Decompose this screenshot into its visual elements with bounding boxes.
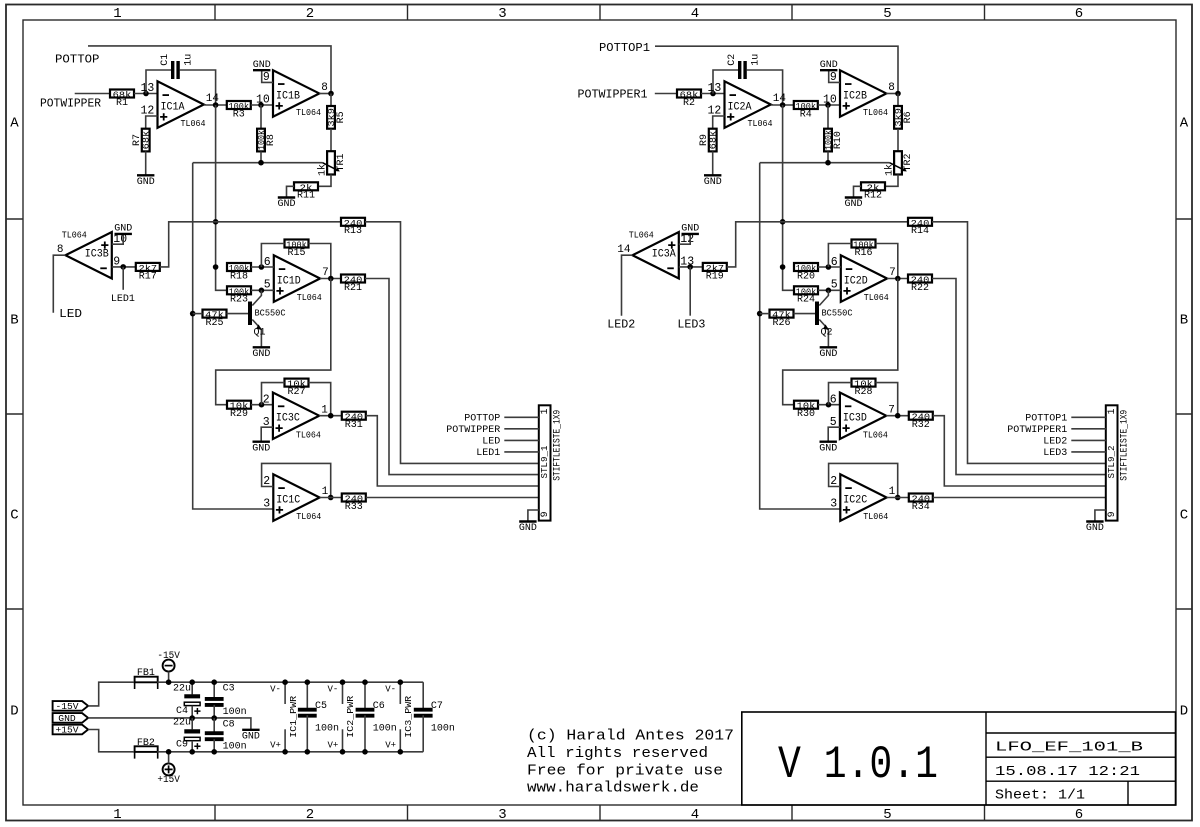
svg-text:2: 2 bbox=[306, 6, 314, 22]
svg-text:1: 1 bbox=[322, 486, 329, 498]
svg-text:3: 3 bbox=[498, 6, 506, 22]
svg-text:R1: R1 bbox=[116, 98, 128, 109]
ground at IC3A plus pin bbox=[681, 224, 699, 235]
wire R24 to IC2D pin 5 bbox=[818, 289, 841, 291]
svg-text:14: 14 bbox=[617, 244, 631, 256]
svg-text:7: 7 bbox=[889, 267, 896, 279]
svg-text:1: 1 bbox=[113, 6, 121, 22]
capacitor C9 22u bbox=[184, 731, 200, 749]
svg-text:1u: 1u bbox=[750, 54, 761, 66]
svg-text:TL064: TL064 bbox=[181, 118, 206, 129]
resistor R21 240 bbox=[341, 275, 365, 294]
wire R25 to Q1 base bbox=[227, 313, 249, 315]
wire C6 top bbox=[364, 682, 366, 710]
wire connector pin 9 to ground bbox=[1095, 510, 1106, 522]
svg-text:-15V: -15V bbox=[157, 650, 180, 662]
svg-text:10: 10 bbox=[823, 94, 837, 107]
svg-text:6: 6 bbox=[1075, 6, 1083, 22]
resistor R5 3k9 bbox=[326, 106, 347, 129]
wire R13 to connector pin 5 bbox=[365, 222, 539, 464]
wire R25 to wiper net bbox=[193, 313, 203, 315]
wire C9 top bbox=[191, 718, 193, 729]
wire IC1B pin 9 to ground bbox=[262, 70, 273, 82]
node IC1B output junction bbox=[328, 91, 334, 97]
svg-text:IC1B: IC1B bbox=[276, 90, 300, 102]
svg-text:R12: R12 bbox=[864, 191, 882, 202]
svg-text:LED1: LED1 bbox=[111, 294, 135, 305]
svg-text:V 1.0.1: V 1.0.1 bbox=[778, 739, 938, 791]
trimmer TR1 1k bbox=[316, 151, 347, 176]
node IC2C output junction bbox=[895, 495, 901, 501]
svg-text:POTTOP1: POTTOP1 bbox=[1025, 414, 1067, 425]
wire R2 to IC2A pin 13 bbox=[701, 93, 725, 95]
ground at IC2B pin 9 bbox=[820, 60, 838, 71]
node IC1D output junction bbox=[328, 276, 334, 282]
svg-text:TL064: TL064 bbox=[62, 230, 87, 241]
wire R23 to IC1D pin 5 bbox=[251, 289, 274, 291]
svg-text:R13: R13 bbox=[344, 226, 362, 237]
svg-text:22u: 22u bbox=[173, 683, 191, 694]
power symbol IC2_PWR V+ bbox=[342, 729, 344, 752]
svg-text:R5: R5 bbox=[336, 111, 347, 123]
svg-text:8: 8 bbox=[321, 82, 328, 94]
svg-text:STL9_2: STL9_2 bbox=[1106, 445, 1117, 478]
wire GND flag rail bbox=[88, 718, 251, 730]
wire R18 to IC1D pin 6 bbox=[251, 266, 274, 268]
wire R10 top bbox=[827, 105, 829, 129]
wire wiper net vertical down bbox=[193, 163, 274, 509]
op-amp IC2D bbox=[831, 255, 896, 303]
svg-text:FB1: FB1 bbox=[137, 668, 155, 679]
wire R27 right bbox=[309, 383, 331, 416]
wire IC3D output bbox=[886, 415, 909, 417]
wire R17 up to triangle net bbox=[160, 222, 341, 267]
wire IC2A pin 12 to R9 bbox=[713, 116, 725, 129]
wire IC2D output down to R30 bbox=[783, 279, 898, 405]
wire IC1D output down to R29 bbox=[216, 279, 331, 405]
wire IC2D output bbox=[887, 278, 908, 280]
node wiper net / R26 junction bbox=[757, 311, 763, 317]
wire IC3D plus pin to ground bbox=[828, 427, 840, 442]
wire IC3A minus pin to R19 bbox=[679, 266, 703, 268]
power symbol IC2_PWR V- bbox=[342, 682, 344, 704]
svg-text:4: 4 bbox=[691, 807, 699, 823]
wire R8 bottom bbox=[260, 151, 262, 162]
ground at R12 bbox=[844, 198, 862, 211]
wire IC1B pin 8 output bbox=[319, 93, 331, 95]
ground at R7 bbox=[137, 175, 155, 188]
wire IC1C feedback loop bbox=[262, 463, 331, 497]
svg-text:R4: R4 bbox=[800, 109, 812, 120]
wire R12 to ground bbox=[854, 186, 862, 197]
resistor R29 10k bbox=[227, 401, 251, 420]
wire R7 to ground bbox=[145, 151, 147, 175]
svg-text:IC1C: IC1C bbox=[276, 494, 300, 506]
node C4 gnd rail junction bbox=[189, 715, 195, 721]
wire C1 feedback left bbox=[146, 70, 171, 94]
wire connector pin 4 stub bbox=[504, 451, 539, 453]
svg-text:GND: GND bbox=[844, 199, 862, 210]
wire trimmer wiper net bbox=[760, 162, 890, 164]
op-amp IC1C bbox=[263, 474, 328, 522]
svg-text:BC550C: BC550C bbox=[822, 308, 853, 319]
resistor R23 100k bbox=[227, 286, 251, 305]
svg-text:TL064: TL064 bbox=[297, 292, 322, 303]
wire connector pin 9 to ground bbox=[528, 510, 539, 522]
svg-text:GND: GND bbox=[252, 443, 270, 454]
svg-text:FB2: FB2 bbox=[137, 738, 155, 749]
resistor R28 10k bbox=[852, 379, 876, 398]
wire R16 right bbox=[876, 244, 898, 279]
resistor R26 47k bbox=[770, 310, 794, 329]
resistor R22 240 bbox=[908, 275, 932, 294]
wire C3 bottom bbox=[213, 705, 215, 718]
svg-text:C9: C9 bbox=[176, 740, 188, 751]
svg-text:R25: R25 bbox=[205, 318, 223, 329]
node IC1_PWR top rail junction bbox=[282, 679, 288, 685]
svg-text:IC1A: IC1A bbox=[161, 101, 185, 113]
wire C4 top bbox=[191, 682, 193, 694]
wire net POTTOP bbox=[88, 46, 331, 94]
wire R3 to IC1B pin 10 bbox=[251, 104, 273, 106]
svg-text:R29: R29 bbox=[230, 409, 248, 420]
svg-text:R8: R8 bbox=[266, 134, 277, 146]
wire -15V connector to rail bbox=[168, 672, 170, 683]
svg-text:All rights reserved: All rights reserved bbox=[527, 746, 708, 762]
wire C7 bottom bbox=[422, 715, 424, 752]
svg-text:GND: GND bbox=[820, 60, 838, 71]
svg-text:POTWIPPER: POTWIPPER bbox=[40, 96, 102, 110]
wire C5 top bbox=[306, 682, 308, 710]
resistor R19 2k7 bbox=[703, 263, 727, 282]
svg-text:R31: R31 bbox=[345, 420, 363, 431]
svg-text:6: 6 bbox=[830, 393, 837, 406]
svg-text:C2: C2 bbox=[727, 54, 738, 66]
svg-text:IC1_PWR: IC1_PWR bbox=[289, 695, 299, 738]
resistor R13 240 bbox=[341, 218, 365, 237]
svg-text:-15V: -15V bbox=[56, 701, 79, 712]
wire IC3B minus pin to R17 bbox=[112, 266, 136, 268]
node -15V rail junction bbox=[166, 679, 172, 685]
node IC2A output junction bbox=[780, 102, 786, 108]
wire R30 to IC3D input bbox=[818, 404, 840, 406]
resistor R2 68k bbox=[677, 90, 701, 109]
resistor R9 68k bbox=[699, 129, 719, 152]
node IC3B minus pin junction bbox=[120, 264, 126, 270]
wire R10 bottom bbox=[827, 151, 829, 162]
svg-text:Q2: Q2 bbox=[821, 328, 833, 339]
node IC3A minus pin junction bbox=[687, 264, 693, 270]
node R20 / R16 junction bbox=[826, 264, 832, 270]
resistor R16 100k bbox=[852, 240, 876, 259]
svg-text:BC550C: BC550C bbox=[255, 308, 286, 319]
svg-text:R2: R2 bbox=[683, 98, 695, 109]
op-amp IC3B bbox=[57, 230, 127, 279]
svg-text:(c) Harald Antes 2017: (c) Harald Antes 2017 bbox=[527, 729, 734, 745]
wire C2 feedback left bbox=[713, 70, 738, 94]
svg-text:5: 5 bbox=[883, 807, 891, 823]
wire R26 to wiper net bbox=[760, 313, 770, 315]
ground at IC1B pin 9 bbox=[253, 60, 271, 71]
ground at IC3D bbox=[819, 442, 837, 455]
svg-text:GND: GND bbox=[704, 177, 722, 188]
resistor R25 47k bbox=[203, 310, 227, 329]
wire C3 top bbox=[213, 682, 215, 699]
svg-text:R17: R17 bbox=[139, 271, 157, 282]
svg-text:STIFTLEISTE_1X9: STIFTLEISTE_1X9 bbox=[1120, 410, 1131, 481]
svg-text:V-: V- bbox=[385, 685, 396, 695]
svg-text:13: 13 bbox=[140, 82, 154, 95]
svg-text:2: 2 bbox=[263, 393, 270, 406]
svg-text:3: 3 bbox=[830, 498, 837, 511]
svg-text:R11: R11 bbox=[297, 191, 315, 202]
svg-text:1u: 1u bbox=[183, 54, 194, 66]
svg-text:TL064: TL064 bbox=[863, 429, 888, 440]
resistor R8 100k bbox=[256, 129, 277, 152]
resistor R12 2k bbox=[861, 182, 885, 201]
wire connector pin 3 stub bbox=[504, 439, 539, 441]
wire to LED1 label bbox=[122, 267, 124, 290]
node C6 bottom rail junction bbox=[362, 749, 368, 755]
wire R5 to TR1 bbox=[330, 129, 332, 152]
capacitor C1 1u bbox=[173, 61, 178, 79]
wire IC3C plus pin to ground bbox=[261, 427, 273, 442]
svg-text:R28: R28 bbox=[854, 387, 872, 398]
svg-text:IC2_PWR: IC2_PWR bbox=[346, 695, 356, 738]
svg-text:TL064: TL064 bbox=[296, 107, 321, 118]
svg-text:STL9_1: STL9_1 bbox=[539, 445, 550, 478]
node IC2D output junction bbox=[895, 276, 901, 282]
wire R34 to connector pin 8 bbox=[933, 497, 1106, 499]
wire C1 feedback right bbox=[179, 70, 215, 105]
svg-text:TL064: TL064 bbox=[629, 230, 654, 241]
svg-text:TR1: TR1 bbox=[336, 153, 347, 171]
svg-text:GND: GND bbox=[681, 224, 699, 235]
svg-text:R14: R14 bbox=[911, 226, 929, 237]
svg-text:LED3: LED3 bbox=[677, 318, 705, 332]
svg-text:LED: LED bbox=[59, 307, 82, 321]
node R4 / R10 junction bbox=[825, 102, 831, 108]
power symbol IC3_PWR V+ bbox=[399, 729, 401, 752]
wire C9 bottom bbox=[191, 741, 193, 752]
svg-text:100n: 100n bbox=[373, 724, 397, 735]
capacitor C4 22u bbox=[184, 696, 200, 714]
power symbol IC1_PWR V+ bbox=[284, 729, 286, 752]
svg-text:TL064: TL064 bbox=[863, 107, 888, 118]
wire R14 to connector pin 5 bbox=[932, 222, 1106, 464]
wire R19 up to triangle net bbox=[727, 222, 908, 267]
node IC2_PWR top rail junction bbox=[340, 679, 346, 685]
svg-text:3: 3 bbox=[263, 498, 270, 511]
svg-text:V+: V+ bbox=[385, 740, 396, 750]
wire IC1C output bbox=[320, 497, 342, 499]
wire R28 right bbox=[876, 383, 898, 416]
svg-text:7: 7 bbox=[322, 267, 329, 279]
op-amp IC2C bbox=[830, 474, 895, 522]
wire R9 to ground bbox=[712, 151, 714, 175]
wire R31 to connector pin 7 bbox=[366, 416, 539, 486]
svg-text:100n: 100n bbox=[223, 707, 247, 718]
node vertical / triangle net junction bbox=[780, 219, 786, 225]
svg-text:V+: V+ bbox=[327, 740, 338, 750]
wire R15 right bbox=[309, 244, 331, 279]
svg-text:V-: V- bbox=[270, 685, 281, 695]
title block box bbox=[742, 712, 1176, 805]
svg-text:GND: GND bbox=[277, 199, 295, 210]
ground at GND rail end bbox=[242, 730, 260, 743]
svg-text:1k: 1k bbox=[883, 164, 895, 176]
svg-text:TL064: TL064 bbox=[748, 118, 773, 129]
wire trimmer wiper net bbox=[193, 162, 323, 164]
svg-text:9: 9 bbox=[540, 511, 551, 517]
wire IC3B plus pin to ground bbox=[112, 234, 123, 244]
wire R11 to ground bbox=[287, 186, 295, 197]
svg-text:LED1: LED1 bbox=[476, 448, 500, 459]
wire C4 bottom bbox=[191, 706, 193, 718]
power connector -15V bbox=[157, 650, 180, 671]
svg-text:D: D bbox=[10, 704, 18, 720]
ferrite bead FB1 bbox=[135, 668, 158, 689]
wire IC3B output to LED label bbox=[53, 255, 65, 313]
node R24 / Q2 junction bbox=[826, 288, 832, 294]
resistor R6 3k9 bbox=[893, 106, 914, 129]
node C3 gnd rail junction bbox=[211, 715, 217, 721]
wire R22 to connector pin 6 bbox=[932, 279, 1106, 475]
svg-text:LFO_EF_101_B: LFO_EF_101_B bbox=[995, 740, 1143, 756]
node IC3_PWR top rail junction bbox=[398, 679, 404, 685]
wire +15V bottom rail bbox=[157, 751, 423, 753]
svg-text:8: 8 bbox=[888, 82, 895, 94]
wire IC2C output bbox=[887, 497, 909, 499]
svg-text:GND: GND bbox=[252, 349, 270, 360]
wire TR2 bottom to R12 bbox=[885, 175, 898, 187]
node C3 top rail junction bbox=[211, 679, 217, 685]
svg-text:1: 1 bbox=[1107, 408, 1118, 414]
svg-text:7: 7 bbox=[888, 404, 895, 416]
wire IC1D output bbox=[320, 278, 341, 280]
svg-text:IC2D: IC2D bbox=[844, 275, 868, 287]
wire connector pin 1 stub bbox=[1071, 416, 1106, 418]
wire IC2B pin 8 output bbox=[886, 93, 898, 95]
node C5 top rail junction bbox=[305, 679, 311, 685]
wire connector pin 4 stub bbox=[1071, 451, 1106, 453]
ground at connector pin 9 bbox=[1086, 522, 1104, 535]
resistor R34 240 bbox=[909, 494, 933, 513]
svg-text:R27: R27 bbox=[287, 387, 305, 398]
svg-text:IC3_PWR: IC3_PWR bbox=[404, 695, 414, 738]
svg-text:10: 10 bbox=[256, 94, 270, 107]
svg-text:4: 4 bbox=[691, 6, 699, 22]
svg-text:IC1D: IC1D bbox=[277, 275, 301, 287]
svg-text:R3: R3 bbox=[233, 109, 245, 120]
node R30 / R28 junction bbox=[826, 402, 832, 408]
ground at R11 bbox=[277, 198, 295, 211]
resistor R24 100k bbox=[794, 286, 818, 305]
node C5 bottom rail junction bbox=[305, 749, 311, 755]
svg-text:IC3A: IC3A bbox=[652, 249, 676, 261]
svg-text:GND: GND bbox=[58, 713, 76, 724]
wire C8 bottom bbox=[213, 739, 215, 752]
node R23 / Q1 junction bbox=[259, 288, 265, 294]
capacitor C2 1u bbox=[740, 61, 745, 79]
svg-text:IC3D: IC3D bbox=[843, 413, 867, 425]
node vertical / R18 junction bbox=[213, 264, 219, 270]
node vertical / triangle net junction bbox=[213, 219, 219, 225]
resistor R17 2k7 bbox=[136, 263, 160, 282]
svg-text:R32: R32 bbox=[912, 420, 930, 431]
svg-text:GND: GND bbox=[819, 349, 837, 360]
svg-text:+15V: +15V bbox=[157, 774, 180, 786]
wire C2 feedback right bbox=[746, 70, 782, 105]
capacitor C8 100n bbox=[205, 733, 224, 739]
wire +15V connector to rail bbox=[168, 752, 170, 764]
svg-text:POTTOP1: POTTOP1 bbox=[599, 41, 650, 55]
svg-text:A: A bbox=[1180, 116, 1189, 132]
svg-text:R16: R16 bbox=[854, 248, 872, 259]
svg-text:LED2: LED2 bbox=[607, 318, 635, 332]
svg-text:B: B bbox=[1180, 313, 1188, 329]
power symbol IC1_PWR V- bbox=[284, 682, 286, 704]
wire R32 to connector pin 7 bbox=[933, 416, 1106, 486]
svg-text:R9: R9 bbox=[699, 134, 710, 146]
node IC1C output junction bbox=[328, 495, 334, 501]
resistor R30 10k bbox=[794, 401, 818, 420]
wire -15V flag to top rail bbox=[88, 682, 133, 706]
capacitor C7 100n bbox=[414, 710, 433, 716]
capacitor C6 100n bbox=[356, 710, 375, 716]
svg-text:+15V: +15V bbox=[56, 725, 79, 736]
capacitor C5 100n bbox=[298, 710, 317, 716]
svg-text:IC2A: IC2A bbox=[728, 101, 752, 113]
svg-text:R34: R34 bbox=[912, 502, 930, 513]
wire +15V flag to bottom rail bbox=[88, 730, 133, 752]
ground at IC3B plus pin bbox=[114, 224, 132, 235]
svg-text:R21: R21 bbox=[344, 283, 362, 294]
svg-text:POTWIPPER: POTWIPPER bbox=[446, 425, 500, 436]
wire R8 top bbox=[260, 105, 262, 129]
power input flag GND bbox=[53, 713, 89, 724]
svg-text:C: C bbox=[1180, 508, 1188, 524]
svg-text:LED2: LED2 bbox=[1043, 437, 1067, 448]
svg-text:9: 9 bbox=[1107, 511, 1118, 517]
svg-text:TL064: TL064 bbox=[863, 511, 888, 522]
wire R26 to Q2 base bbox=[794, 313, 816, 315]
svg-text:V-: V- bbox=[327, 685, 338, 695]
wire R15 left bbox=[261, 244, 284, 268]
svg-text:TL064: TL064 bbox=[296, 511, 321, 522]
svg-text:C1: C1 bbox=[160, 54, 171, 66]
wire IC2A output bbox=[771, 104, 794, 106]
svg-text:R10: R10 bbox=[833, 131, 844, 149]
svg-text:C6: C6 bbox=[373, 701, 385, 712]
svg-text:1: 1 bbox=[540, 408, 551, 414]
wire R5 top bbox=[330, 94, 332, 107]
svg-text:V+: V+ bbox=[270, 740, 281, 750]
wire to LED3 label bbox=[689, 267, 691, 316]
ground at R9 bbox=[704, 175, 722, 188]
wire integrator input net vertical bbox=[783, 105, 794, 290]
connector STL9_2 STIFTLEISTE_1X9 bbox=[1106, 405, 1131, 520]
wire IC1A output bbox=[204, 104, 227, 106]
wire R20 to IC2D pin 6 bbox=[818, 266, 841, 268]
node R1 / C1 junction bbox=[143, 91, 149, 97]
svg-text:D: D bbox=[1180, 704, 1188, 720]
svg-text:13: 13 bbox=[707, 82, 721, 95]
resistor R4 100k bbox=[794, 101, 818, 120]
wire R21 to connector pin 6 bbox=[365, 279, 539, 475]
node R2 / C2 junction bbox=[710, 91, 716, 97]
power input flag +15V bbox=[53, 725, 89, 736]
